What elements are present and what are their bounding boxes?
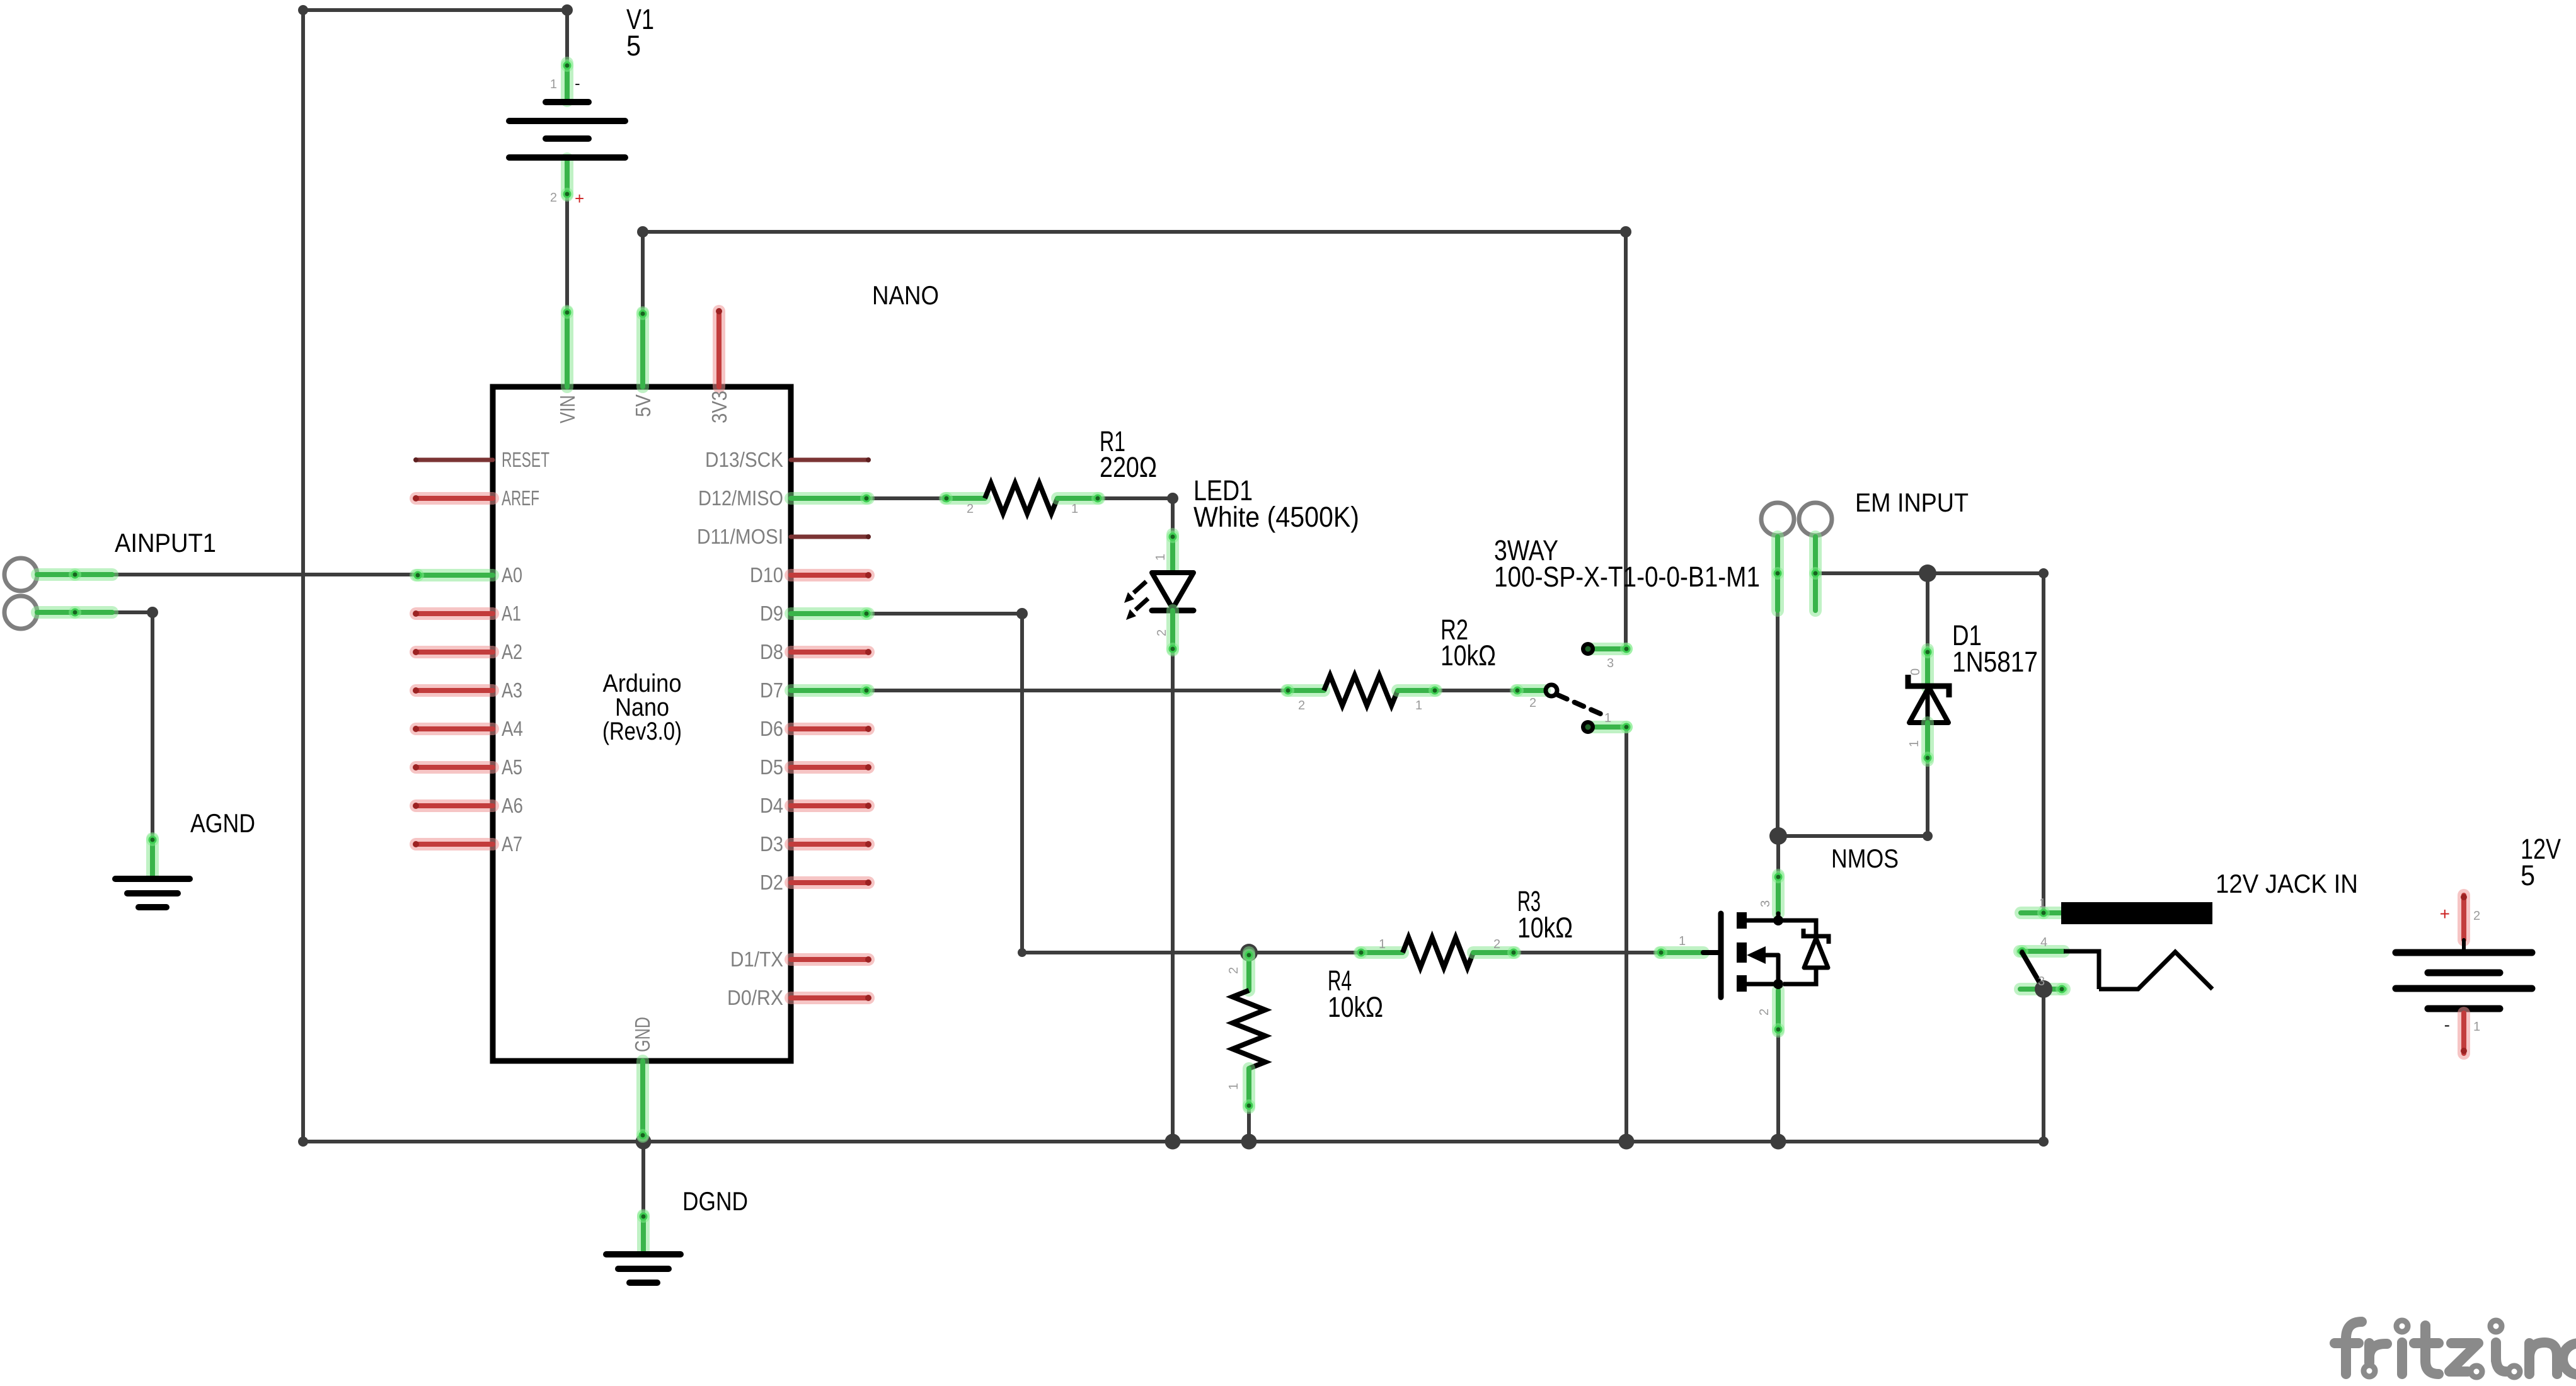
svg-text:100-SP-X-T1-0-0-B1-M1: 100-SP-X-T1-0-0-B1-M1 [1494, 561, 1760, 593]
svg-text:2: 2 [1155, 629, 1169, 636]
svg-text:A4: A4 [502, 717, 523, 740]
svg-text:5: 5 [626, 30, 641, 62]
svg-text:2: 2 [1529, 696, 1536, 710]
svg-text:1: 1 [1379, 937, 1386, 951]
svg-text:NMOS: NMOS [1831, 844, 1899, 873]
svg-text:VIN: VIN [556, 395, 579, 423]
svg-text:A5: A5 [502, 755, 522, 779]
svg-text:D1/TX: D1/TX [730, 948, 783, 971]
svg-text:A6: A6 [502, 794, 523, 817]
svg-text:D0/RX: D0/RX [727, 986, 783, 1009]
svg-text:A7: A7 [502, 832, 522, 856]
svg-text:AINPUT1: AINPUT1 [115, 528, 216, 558]
svg-text:3: 3 [1607, 656, 1614, 670]
svg-text:(Rev3.0): (Rev3.0) [602, 718, 682, 745]
svg-text:5: 5 [2521, 859, 2535, 891]
svg-text:1: 1 [2473, 1020, 2480, 1034]
svg-text:DGND: DGND [682, 1186, 748, 1216]
svg-text:1: 1 [1415, 699, 1422, 713]
svg-text:220Ω: 220Ω [1100, 451, 1157, 483]
svg-text:2: 2 [2473, 909, 2480, 923]
svg-text:AREF: AREF [502, 486, 539, 510]
svg-text:2: 2 [550, 191, 557, 205]
svg-text:1: 1 [1604, 711, 1611, 725]
svg-text:A0: A0 [502, 563, 522, 587]
svg-text:2: 2 [1757, 1009, 1771, 1016]
svg-text:D8: D8 [760, 640, 783, 663]
svg-text:NANO: NANO [872, 280, 939, 310]
svg-text:12V JACK IN: 12V JACK IN [2216, 869, 2358, 898]
svg-text:3: 3 [2038, 975, 2045, 988]
svg-text:5V: 5V [631, 394, 655, 417]
svg-text:D6: D6 [760, 717, 783, 740]
svg-text:D7: D7 [760, 679, 783, 702]
svg-text:AGND: AGND [190, 808, 255, 838]
svg-text:1: 1 [2039, 896, 2046, 910]
svg-text:D2: D2 [760, 871, 783, 894]
svg-text:10kΩ: 10kΩ [1328, 991, 1383, 1023]
svg-text:10kΩ: 10kΩ [1517, 912, 1573, 944]
svg-text:A2: A2 [502, 640, 522, 663]
svg-text:GND: GND [631, 1017, 654, 1052]
svg-text:White (4500K): White (4500K) [1193, 501, 1359, 533]
svg-text:A1: A1 [502, 602, 521, 625]
svg-text:2: 2 [967, 502, 974, 516]
svg-text:D11/MOSI: D11/MOSI [697, 525, 783, 548]
svg-text:+: + [2440, 904, 2450, 924]
svg-text:2: 2 [1227, 967, 1241, 974]
svg-text:D4: D4 [760, 794, 783, 817]
svg-text:3: 3 [1759, 900, 1773, 907]
svg-text:-: - [575, 74, 580, 93]
svg-text:1: 1 [1907, 740, 1921, 747]
svg-text:D9: D9 [760, 602, 783, 625]
svg-text:RESET: RESET [502, 448, 549, 471]
svg-text:D10: D10 [750, 563, 783, 587]
svg-text:D13/SCK: D13/SCK [705, 448, 783, 471]
svg-text:1N5817: 1N5817 [1952, 646, 2038, 678]
svg-text:A3: A3 [502, 679, 522, 702]
svg-text:1: 1 [1227, 1083, 1241, 1090]
svg-text:2: 2 [1493, 937, 1500, 951]
svg-text:EM INPUT: EM INPUT [1855, 488, 1969, 517]
svg-text:1: 1 [1154, 554, 1168, 561]
svg-text:1: 1 [1679, 934, 1686, 948]
svg-text:2: 2 [1298, 699, 1305, 713]
svg-text:-: - [2444, 1015, 2450, 1034]
svg-text:D3: D3 [760, 832, 783, 856]
svg-text:1: 1 [1071, 502, 1078, 516]
svg-text:4: 4 [2040, 936, 2047, 949]
svg-text:3V3: 3V3 [708, 391, 731, 423]
svg-text:1: 1 [550, 77, 557, 91]
svg-text:D12/MISO: D12/MISO [698, 486, 783, 510]
svg-text:10kΩ: 10kΩ [1440, 639, 1496, 672]
svg-text:+: + [575, 189, 584, 208]
svg-text:0: 0 [1909, 668, 1923, 675]
svg-text:D5: D5 [760, 755, 783, 779]
